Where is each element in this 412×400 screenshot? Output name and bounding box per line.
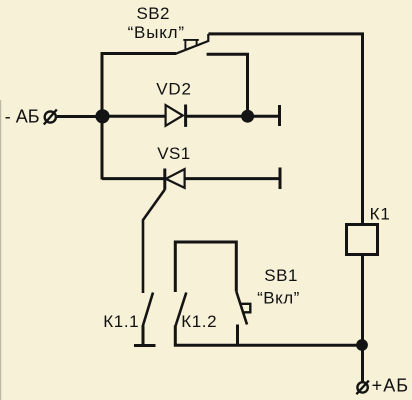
svg-text:“Выкл”: “Выкл” [128,23,185,42]
svg-text:VS1: VS1 [157,144,190,163]
svg-text:К1.2: К1.2 [181,312,217,331]
svg-text:+АБ: +АБ [372,376,410,396]
svg-text:- АБ: - АБ [5,107,40,127]
svg-text:VD2: VD2 [156,80,191,99]
svg-text:“Вкл”: “Вкл” [257,289,300,308]
svg-text:SB1: SB1 [264,266,298,285]
svg-text:К1.1: К1.1 [103,312,139,331]
svg-text:К1: К1 [370,205,391,224]
svg-text:SB2: SB2 [137,4,170,23]
